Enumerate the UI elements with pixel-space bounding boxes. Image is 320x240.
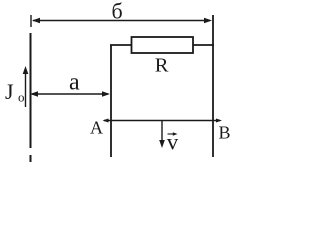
left tick of dimension b xyxy=(30,15,32,27)
left rail of circuit xyxy=(110,45,112,157)
right arrowhead of dimension b xyxy=(204,18,212,24)
velocity arrow v xyxy=(159,121,165,148)
svg-text:R: R xyxy=(155,55,169,77)
wire: top-left of loop to resistor xyxy=(110,44,132,46)
right rail of circuit xyxy=(212,15,214,157)
wire continuation dash xyxy=(30,155,32,162)
rod AB (sliding conductor) with end arrowheads xyxy=(103,119,223,123)
right arrowhead of dimension a xyxy=(102,91,110,97)
dimension line b (top), from wire to right rail xyxy=(31,15,212,27)
left arrowhead of dimension a xyxy=(30,91,38,97)
current arrow J0 (direction of current, upward) xyxy=(23,66,29,107)
dimension line a, from wire to left rail xyxy=(30,91,110,97)
svg-text:B: B xyxy=(219,123,231,143)
svg-text:o: o xyxy=(18,90,25,105)
svg-text:б: б xyxy=(112,0,123,24)
svg-text:A: A xyxy=(90,118,103,138)
svg-text:a: a xyxy=(69,70,80,96)
wire: long straight current-carrying wire xyxy=(30,33,32,148)
svg-text:J: J xyxy=(5,79,14,104)
resistor R xyxy=(132,37,194,53)
left arrowhead of dimension b xyxy=(32,18,40,24)
label v with vector arrow xyxy=(167,130,179,155)
wire: resistor to right rail xyxy=(192,44,214,46)
